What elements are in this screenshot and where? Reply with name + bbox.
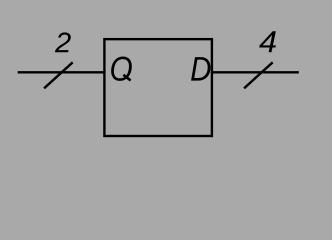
wire right bus [212, 71, 299, 73]
bus-width slash left [44, 62, 73, 88]
bus width label 2 [55, 32, 71, 52]
register block U1 [104, 39, 211, 136]
bus width label 4 [259, 31, 276, 52]
bus-width slash right [244, 62, 273, 88]
wire left bus [18, 71, 105, 73]
pin label D [191, 57, 210, 81]
pin label Q (ring) [111, 56, 132, 80]
pin label Q (tail) [123, 75, 130, 81]
